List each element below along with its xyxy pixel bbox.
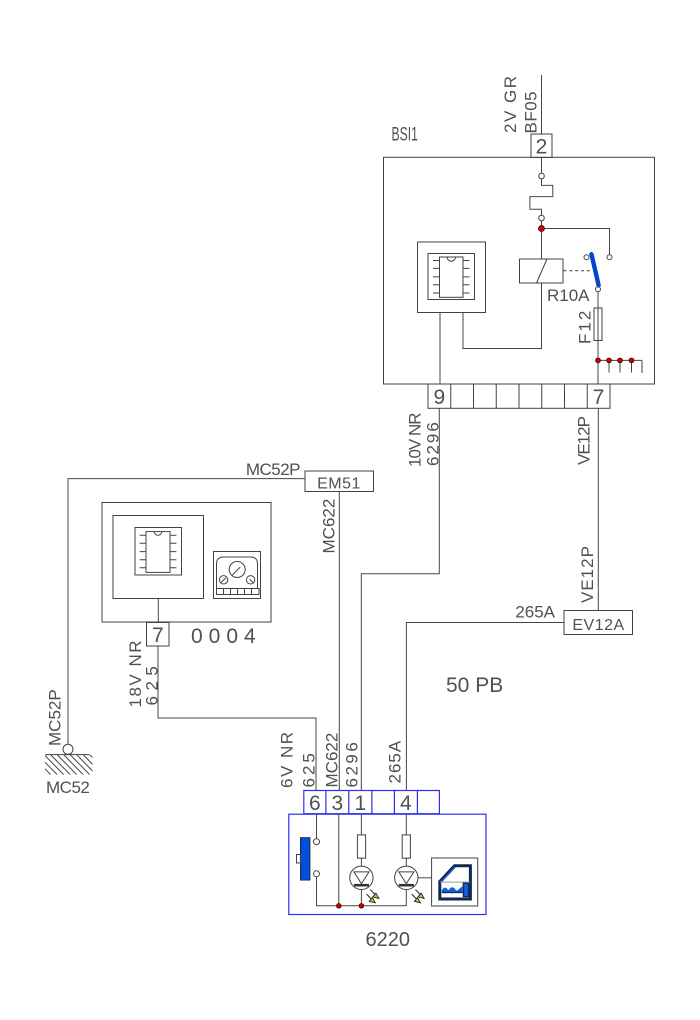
svg-text:625: 625 (143, 661, 162, 706)
light arrows LED2 (412, 890, 424, 903)
svg-text:6296: 6296 (343, 740, 362, 788)
splice node 2 (607, 358, 612, 363)
wire pin 1 to resistor (360, 814, 362, 835)
svg-text:MC52P: MC52P (246, 460, 300, 479)
light arrows LED1 (367, 890, 379, 903)
instrument cluster icon (214, 552, 261, 599)
lamp connector strip (304, 791, 440, 814)
wire splice bus (598, 360, 642, 373)
svg-text:MC622: MC622 (320, 499, 339, 554)
junction node (359, 904, 364, 909)
wire chip to pin 7 (157, 599, 159, 623)
BSI connector row (428, 384, 610, 408)
splice node 3 (618, 358, 623, 363)
junction node (539, 226, 545, 232)
LED2 lamp (395, 866, 418, 889)
svg-text:EV12A: EV12A (572, 617, 624, 634)
svg-text:9: 9 (433, 386, 445, 409)
wire resistor to LED2 (405, 858, 407, 866)
svg-text:2V GR: 2V GR (501, 74, 520, 133)
splice node 4 (629, 358, 634, 363)
switch actuator (blue) (300, 838, 310, 881)
wire MC52P to ground (68, 479, 305, 745)
svg-text:7: 7 (152, 624, 164, 647)
window lifter icon (440, 866, 471, 899)
switch lever (blue) (592, 254, 599, 285)
wire pin 4 to resistor (405, 814, 407, 835)
svg-text:265A: 265A (386, 740, 405, 784)
switch contact bottom (596, 287, 601, 292)
BSI electronic module U1 (418, 242, 486, 313)
resistor R2 (402, 835, 410, 858)
svg-text:VE12P: VE12P (575, 416, 594, 465)
LED1 lamp (350, 866, 373, 889)
svg-text:F12: F12 (576, 309, 595, 344)
wire pin 3 to bus (338, 814, 340, 906)
wire 625 pin 7 to lamp pin 6 (158, 646, 316, 790)
junction node (337, 904, 342, 909)
wire resistor to LED1 (360, 858, 362, 866)
wire BSI chip to pin 9 (439, 313, 441, 385)
svg-text:MC52P: MC52P (46, 689, 65, 746)
window lifter icon box (432, 858, 478, 906)
contact circle (539, 215, 545, 221)
svg-text:4: 4 (400, 792, 412, 815)
svg-text:EM51: EM51 (317, 476, 361, 493)
switch contact bottom (314, 871, 320, 877)
switch contact right (607, 255, 612, 260)
svg-text:6: 6 (309, 792, 321, 815)
resistor R1 (357, 835, 365, 858)
wire from pin 2 down (541, 157, 543, 173)
wire 6296 from pin 9 to lamp pin 1 (361, 408, 439, 790)
wire LED2 to icon (418, 877, 432, 879)
svg-text:VE12P: VE12P (578, 545, 597, 603)
chip in unit 0004 (135, 528, 182, 576)
connector EV12A (564, 611, 633, 635)
svg-text:1: 1 (354, 792, 366, 815)
pin box 2 of BSI1 (531, 134, 552, 158)
wire junction to relay top (541, 232, 543, 260)
svg-text:265A: 265A (515, 603, 555, 622)
wire MC622 EM51 to lamp pin 3 (338, 492, 340, 791)
wire LED1 to bus (360, 890, 362, 906)
wire to junction (541, 221, 543, 226)
wire zigzag link (530, 179, 553, 215)
wire relay bottom to BSI chip (463, 283, 542, 349)
svg-text:MC52: MC52 (46, 778, 89, 797)
svg-text:BF05: BF05 (522, 91, 541, 134)
svg-text:7: 7 (593, 386, 605, 409)
contact circle (539, 173, 545, 179)
switch contact top (314, 839, 320, 845)
wire supply 2V GR from top (541, 75, 543, 134)
svg-text:50 PB: 50 PB (446, 674, 503, 697)
svg-text:BSI1: BSI1 (392, 125, 418, 145)
lamp unit 6220 box (289, 814, 486, 914)
splice node 1 (596, 358, 601, 363)
svg-text:625: 625 (300, 750, 319, 787)
wire pin 6 to switch (316, 814, 318, 839)
svg-text:10V NR: 10V NR (406, 413, 425, 467)
svg-text:3: 3 (331, 792, 343, 815)
pin box 7 of unit 0004 (147, 623, 170, 647)
svg-text:6296: 6296 (424, 420, 443, 466)
svg-text:MC622: MC622 (323, 733, 342, 788)
connector EM51 (305, 471, 374, 492)
box BSI1 (384, 157, 655, 384)
svg-text:R10A: R10A (547, 286, 590, 305)
wire VE12P pin 7 to EV12A (597, 408, 599, 610)
ground MC52 (30, 754, 111, 777)
svg-text:2: 2 (536, 136, 548, 159)
switch contact left (584, 255, 589, 260)
wire 265A to lamp pin 4 (406, 623, 564, 791)
wire junction to switch contact (545, 229, 610, 255)
control unit 0004 box (102, 503, 271, 623)
wire LED2 to bus (405, 890, 407, 906)
svg-text:6220: 6220 (366, 929, 411, 951)
ground contact circle (63, 744, 73, 754)
relay coil R10A (520, 259, 564, 283)
svg-text:0004: 0004 (191, 625, 262, 648)
fuse F12 (594, 308, 602, 341)
wire switch to fuse and connector (597, 292, 599, 384)
dashed relay-switch link (564, 270, 591, 272)
wire switch to bus (317, 877, 407, 906)
svg-text:6V NR: 6V NR (278, 730, 297, 788)
